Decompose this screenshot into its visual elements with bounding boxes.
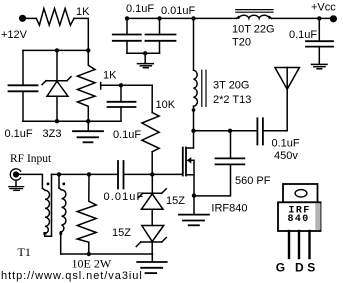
node bbox=[55, 119, 59, 123]
node +12V terminal dot bbox=[19, 15, 26, 22]
TO-220 body bbox=[278, 202, 321, 231]
svg-text:IRF840: IRF840 bbox=[211, 203, 247, 215]
primary phase dot bbox=[47, 183, 50, 186]
node bbox=[87, 172, 91, 176]
secondary phase dot bbox=[63, 183, 66, 186]
wire bbox=[120, 85, 122, 102]
svg-text:0.1uF: 0.1uF bbox=[126, 3, 154, 15]
svg-text:0.1uF: 0.1uF bbox=[113, 129, 141, 141]
wire bbox=[56, 50, 58, 80]
zener diode 3Z3 bbox=[42, 77, 71, 97]
svg-text:0.1uF: 0.1uF bbox=[5, 128, 33, 140]
node bbox=[143, 51, 147, 55]
ground vcc bbox=[312, 64, 328, 68]
secondary bottom blob bbox=[59, 232, 62, 235]
capacitor 0.1uF vcc bbox=[306, 18, 333, 64]
inductor T20 10T 22G bbox=[236, 10, 273, 19]
transistor Q1 IRF840 mosfet bbox=[183, 148, 194, 196]
svg-text:+Vcc: +Vcc bbox=[311, 2, 336, 14]
node bbox=[87, 252, 91, 256]
ground source bbox=[179, 196, 209, 226]
potentiometer wiper bbox=[101, 83, 153, 90]
node bbox=[125, 16, 129, 20]
capacitor 0.1uF left bbox=[9, 85, 38, 91]
svg-text:3Z3: 3Z3 bbox=[43, 128, 62, 140]
wire bottom rail top-left bbox=[23, 107, 121, 121]
wire drain to mosfet bbox=[193, 131, 195, 148]
svg-text:15Z: 15Z bbox=[112, 227, 131, 239]
wire bbox=[74, 18, 88, 50]
node wiper junction bbox=[119, 83, 123, 87]
wire bbox=[26, 17, 36, 19]
capacitor 0.1uF mid bbox=[108, 102, 136, 107]
svg-text:0.1uF: 0.1uF bbox=[289, 29, 317, 41]
wire bbox=[127, 52, 160, 54]
capacitor 0.1uF 450v bbox=[257, 118, 263, 144]
node bbox=[86, 119, 90, 123]
node bbox=[55, 48, 59, 52]
svg-text:T20: T20 bbox=[232, 37, 251, 49]
node bbox=[191, 16, 195, 20]
resistor 10K bbox=[142, 113, 159, 152]
wire top rail bbox=[127, 17, 237, 19]
node bbox=[57, 172, 61, 176]
potentiometer 1K resistor body bbox=[77, 50, 95, 121]
wire rf to transformer bbox=[19, 174, 42, 188]
transformer T1 primary winding bbox=[42, 174, 51, 236]
wire bbox=[23, 49, 88, 51]
node bbox=[228, 129, 232, 133]
capacitor 0.01uF top bbox=[146, 18, 176, 53]
wire gate line 2 bbox=[124, 173, 183, 175]
resistor 10E 2W bbox=[77, 174, 96, 254]
node bbox=[157, 16, 161, 20]
svg-text:2*2 T13: 2*2 T13 bbox=[213, 94, 251, 106]
svg-text:10K: 10K bbox=[156, 99, 176, 111]
zener diode 15Z upper bbox=[138, 174, 166, 209]
TO-220 package tab bbox=[283, 184, 318, 202]
terminal +Vcc dot bbox=[330, 15, 337, 22]
svg-text:RF Input: RF Input bbox=[10, 153, 52, 165]
wire bbox=[151, 209, 153, 225]
svg-text:D: D bbox=[295, 260, 304, 274]
node bbox=[150, 172, 154, 176]
wire bbox=[56, 96, 58, 121]
wire bbox=[151, 152, 153, 175]
wire gate line bbox=[52, 173, 119, 175]
node bbox=[191, 129, 195, 133]
antenna bbox=[275, 68, 300, 90]
svg-text:http://www.qsl.net/va3iul: http://www.qsl.net/va3iul bbox=[1, 270, 143, 282]
svg-text:S: S bbox=[307, 260, 315, 274]
transformer T1 secondary winding bbox=[59, 174, 66, 254]
resistor R1 1K bbox=[36, 9, 74, 26]
wire bbox=[263, 89, 287, 131]
svg-text:840: 840 bbox=[288, 214, 310, 225]
wire bbox=[22, 50, 24, 85]
wire bbox=[193, 106, 195, 131]
wire bbox=[151, 242, 153, 254]
wire source to 560pf bbox=[194, 164, 231, 196]
svg-text:G: G bbox=[276, 260, 285, 274]
inductor T13 3T 20G bbox=[194, 70, 207, 106]
ground top mid bbox=[138, 53, 154, 67]
primary bottom blob bbox=[43, 232, 46, 235]
svg-text:1K: 1K bbox=[76, 6, 90, 18]
TO-220 gray strip bbox=[315, 203, 320, 230]
wire drain vertical top bbox=[193, 18, 195, 70]
zener diode 15Z lower bbox=[136, 226, 166, 247]
svg-text:T1: T1 bbox=[18, 245, 31, 259]
svg-text:450v: 450v bbox=[274, 150, 298, 162]
capacitor 0.01uF gate bbox=[118, 161, 124, 189]
svg-text:560 PF: 560 PF bbox=[235, 175, 271, 187]
capacitor 0.1uF top bbox=[113, 18, 141, 53]
capacitor 560 PF bbox=[216, 131, 245, 165]
wire bbox=[151, 85, 153, 112]
node bbox=[317, 16, 321, 20]
TO-220 hole bbox=[295, 190, 307, 197]
svg-text:+12V: +12V bbox=[1, 29, 28, 41]
wire bbox=[271, 17, 330, 19]
svg-text:10T 22G: 10T 22G bbox=[232, 24, 275, 36]
wire bbox=[22, 91, 24, 121]
svg-text:3T 20G: 3T 20G bbox=[213, 80, 250, 92]
svg-text:10E 2W: 10E 2W bbox=[72, 257, 112, 271]
wire drain rail bbox=[194, 130, 258, 132]
TO-220 legs bbox=[289, 231, 310, 258]
node bbox=[86, 48, 90, 52]
node source bbox=[192, 193, 196, 197]
RF input connector bbox=[10, 169, 20, 180]
svg-text:0.1uF: 0.1uF bbox=[272, 138, 300, 150]
svg-text:15Z: 15Z bbox=[166, 195, 185, 207]
wire bottom rail bbox=[61, 253, 153, 255]
ground rf bbox=[9, 180, 24, 190]
ground zener bbox=[137, 254, 167, 273]
svg-text:1K: 1K bbox=[103, 70, 117, 82]
coil end blob bbox=[192, 108, 196, 112]
svg-text:0.01uF: 0.01uF bbox=[161, 5, 196, 17]
ground pot bbox=[73, 121, 103, 142]
